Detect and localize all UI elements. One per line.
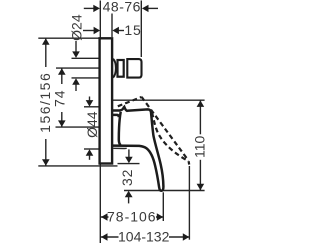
- extension line 104-132 right: [188, 166, 190, 240]
- svg-text:48-76: 48-76: [103, 0, 141, 15]
- extension line 15/plate front: [111, 14, 113, 38]
- extension line 110 top: [113, 99, 205, 101]
- dimension 15: [83, 22, 142, 38]
- dimension diam24: [68, 14, 84, 91]
- extension line 32 top: [118, 163, 140, 165]
- lever handle solid outline: [113, 107, 164, 191]
- svg-text:32: 32: [119, 169, 135, 186]
- knob bump: [113, 59, 116, 78]
- knob collar: [118, 60, 124, 77]
- dashed lever raised tip: [188, 161, 191, 164]
- extension line 156 bottom: [38, 165, 117, 167]
- wall line: [99, 1, 101, 244]
- lever base shoulder: [113, 115, 119, 117]
- lever cone front edge: [119, 112, 121, 145]
- extension line diam44 bottom: [84, 148, 99, 150]
- svg-text:74: 74: [52, 89, 68, 107]
- dashed lever raised front edge: [142, 97, 189, 161]
- extension line diam24 top: [72, 57, 100, 59]
- dimension 104-132: [101, 229, 189, 245]
- svg-text:78-106: 78-106: [107, 209, 157, 225]
- svg-text:104-132: 104-132: [118, 229, 170, 245]
- extension line 78-106 right: [162, 192, 164, 221]
- dimension 156/156: [37, 38, 53, 165]
- dashed lever raised back edge: [152, 113, 188, 162]
- extension line 48-76 right: [140, 1, 142, 58]
- extension line diam24 bottom: [72, 77, 100, 79]
- extension line diam44 top: [84, 106, 99, 108]
- svg-text:Ø24: Ø24: [68, 14, 84, 41]
- dimension 110: [192, 100, 208, 190]
- dimension 74: [52, 68, 68, 127]
- svg-text:15: 15: [124, 22, 141, 38]
- svg-text:110: 110: [192, 136, 208, 159]
- dimension 48-76: [84, 0, 158, 15]
- cone bottom lip: [113, 147, 127, 149]
- svg-text:Ø44: Ø44: [84, 111, 100, 138]
- knob cap: [127, 59, 141, 78]
- dashed lever raised top edge: [118, 97, 142, 106]
- extension line 110 bottom: [124, 190, 205, 192]
- dimension 78-106: [101, 209, 163, 225]
- extension line 74 top: [56, 67, 100, 69]
- extension line 74 bottom: [56, 126, 100, 128]
- dimension 32: [119, 149, 135, 203]
- escutcheon plate (side view): [100, 38, 113, 163]
- dimension diam44: [84, 97, 100, 160]
- extension line 156 top: [38, 37, 98, 39]
- svg-text:156/156: 156/156: [37, 72, 53, 133]
